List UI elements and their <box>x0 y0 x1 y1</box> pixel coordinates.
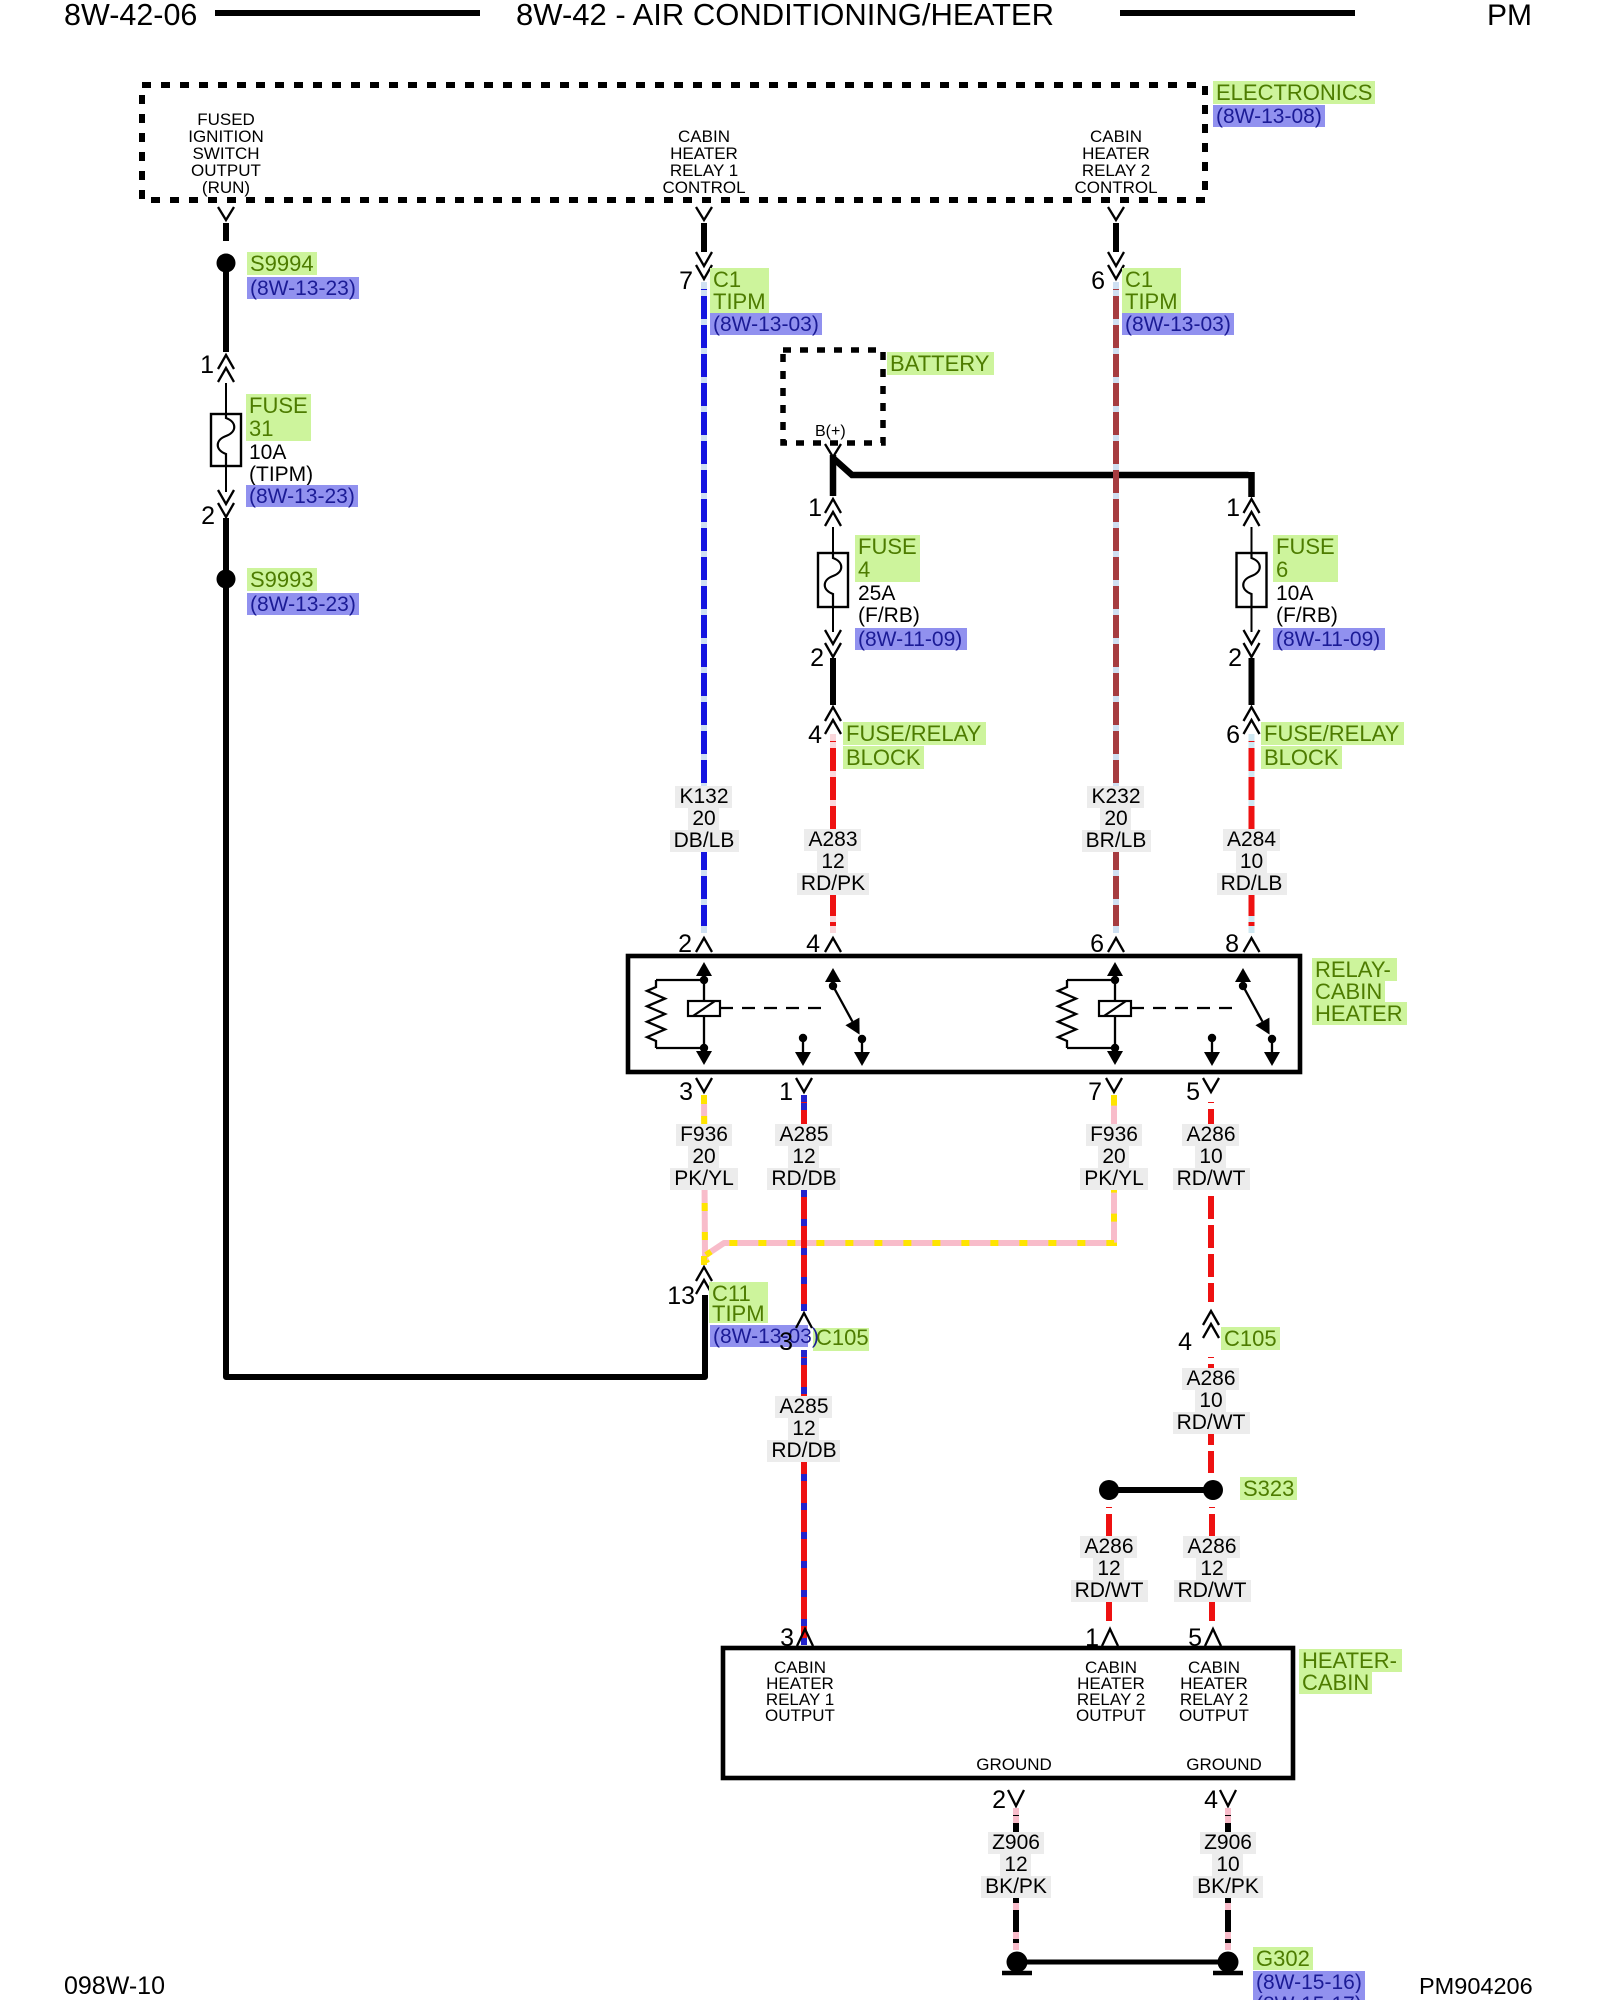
relay switch output contact <box>1208 1034 1216 1042</box>
svg-text:4: 4 <box>1178 1328 1192 1356</box>
RELAY-CABIN HEATER box <box>628 956 1300 1072</box>
svg-text:4: 4 <box>1204 1786 1218 1814</box>
svg-text:TIPM: TIPM <box>712 1301 765 1326</box>
pin 2 of fuse 6 <box>1251 607 1253 632</box>
wire exit arrow cabin heater relay 1 control <box>696 207 712 220</box>
relay switch pole arrow <box>832 982 834 985</box>
label K232 20 BR/LB <box>1087 786 1144 808</box>
label S9994 <box>247 252 317 275</box>
svg-text:CABIN: CABIN <box>1302 1670 1369 1695</box>
relay actuation dashed link <box>720 1007 825 1009</box>
wire K232 20 BR/LB <box>1113 282 1119 933</box>
svg-text:OUTPUT: OUTPUT <box>765 1706 835 1725</box>
label A286 12 RD/WT right <box>1183 1536 1240 1558</box>
svg-text:10: 10 <box>1240 850 1263 873</box>
relay coil ground arrow <box>703 1048 705 1051</box>
svg-text:7: 7 <box>679 267 693 295</box>
svg-text:2: 2 <box>201 502 215 530</box>
label (8W-13-08) <box>1213 105 1325 127</box>
header rule left <box>215 10 480 16</box>
label G302 <box>1253 1947 1313 1970</box>
svg-text:RD/PK: RD/PK <box>801 872 865 895</box>
wire F936 20 PK/YL left <box>704 1095 707 1263</box>
ground G302 symbol <box>1017 1960 1228 1965</box>
B(+) exit arrow <box>825 444 841 457</box>
connector C1 pin 7 arrows <box>696 265 712 279</box>
svg-text:12: 12 <box>792 1417 815 1440</box>
label F936 20 PK/YL left <box>676 1124 732 1146</box>
relay coil feed arrow <box>1114 976 1116 979</box>
HEATER-CABIN box <box>723 1648 1293 1778</box>
svg-text:PM904206: PM904206 <box>1419 1973 1533 1999</box>
label (8W-13-03) left <box>710 313 822 335</box>
svg-text:1: 1 <box>779 1078 793 1106</box>
svg-text:A283: A283 <box>808 828 857 851</box>
label C105 right <box>1221 1327 1280 1350</box>
svg-text:(RUN): (RUN) <box>202 178 250 197</box>
svg-text:ELECTRONICS: ELECTRONICS <box>1216 80 1372 105</box>
svg-text:DB/LB: DB/LB <box>674 829 735 852</box>
svg-text:A286: A286 <box>1186 1123 1235 1146</box>
label FUSE/RELAY BLOCK middle <box>843 722 986 745</box>
svg-text:2: 2 <box>992 1786 1006 1814</box>
svg-text:RD/DB: RD/DB <box>771 1167 836 1190</box>
svg-text:FUSE: FUSE <box>1276 534 1335 559</box>
label C1 TIPM right <box>1122 268 1181 291</box>
label A286 10 RD/WT upper <box>1182 1124 1239 1146</box>
svg-text:13: 13 <box>667 1282 695 1310</box>
label FUSE/RELAY BLOCK right <box>1261 722 1404 745</box>
svg-text:FUSE: FUSE <box>858 534 917 559</box>
svg-text:20: 20 <box>692 1145 715 1168</box>
ELECTRONICS module dotted box <box>142 85 1205 200</box>
battery feed wire to fuse 4 and fuse 6 <box>833 455 1252 497</box>
svg-text:F936: F936 <box>1090 1123 1138 1146</box>
fuse F31 <box>225 383 227 414</box>
svg-text:CONTROL: CONTROL <box>662 178 745 197</box>
svg-text:PM: PM <box>1487 0 1532 32</box>
svg-text:FUSE/RELAY: FUSE/RELAY <box>846 721 982 746</box>
svg-text:8W-42 - AIR CONDITIONING/HEATE: 8W-42 - AIR CONDITIONING/HEATER <box>516 0 1054 32</box>
wire F936 pink/yellow horizontal run <box>706 1095 1114 1255</box>
relay coil ground arrow <box>1114 1048 1116 1051</box>
yellow tracer dashes at wire ends <box>701 1095 707 1104</box>
relay switch thrown-contact arrow <box>1271 1039 1273 1050</box>
relay switch blade <box>833 986 852 1022</box>
svg-text:S9994: S9994 <box>250 251 314 276</box>
label A284 10 RD/LB <box>1223 829 1280 851</box>
label Z906 10 BK/PK <box>1200 1832 1256 1854</box>
svg-text:A286: A286 <box>1084 1535 1133 1558</box>
svg-text:12: 12 <box>1004 1853 1027 1876</box>
svg-text:6: 6 <box>1091 267 1105 295</box>
svg-text:B(+): B(+) <box>815 423 846 440</box>
label (8W-13-03) at C11 <box>710 1325 808 1347</box>
svg-text:(8W-13-03): (8W-13-03) <box>713 1325 819 1348</box>
BATTERY dotted box <box>783 350 883 443</box>
label (8W-15-16) <box>1253 1971 1365 1993</box>
svg-text:S323: S323 <box>1243 1476 1294 1501</box>
svg-text:GROUND: GROUND <box>976 1755 1052 1774</box>
svg-text:10: 10 <box>1199 1145 1222 1168</box>
wire exit arrow from ELECTRONICS (run output) <box>218 207 234 220</box>
label BATTERY <box>887 352 994 375</box>
label Z906 12 BK/PK <box>988 1832 1044 1854</box>
svg-text:BK/PK: BK/PK <box>985 1875 1047 1898</box>
svg-text:BATTERY: BATTERY <box>890 351 990 376</box>
svg-text:(8W-13-23): (8W-13-23) <box>249 485 355 508</box>
label S9993 <box>247 568 317 591</box>
svg-text:10A: 10A <box>249 441 286 464</box>
relay switch output contact <box>799 1034 807 1042</box>
label (8W-11-09) for fuse 6 <box>1273 628 1385 650</box>
svg-text:BLOCK: BLOCK <box>1264 745 1339 770</box>
svg-text:(8W-13-03): (8W-13-03) <box>713 313 819 336</box>
svg-text:G302: G302 <box>1256 1946 1310 1971</box>
svg-text:F936: F936 <box>680 1123 728 1146</box>
svg-text:5: 5 <box>1186 1078 1200 1106</box>
label C105 left <box>813 1328 869 1351</box>
svg-text:8W-42-06: 8W-42-06 <box>64 0 197 32</box>
pin 2 of fuse 31 <box>225 466 227 492</box>
label RELAY-CABIN HEATER <box>1312 958 1397 981</box>
wire A286 12 RD/WT right leg <box>1209 1500 1215 1628</box>
svg-text:K232: K232 <box>1091 785 1140 808</box>
svg-text:20: 20 <box>692 807 715 830</box>
wire A286 10 RD/WT to splice S323 <box>1208 1350 1214 1480</box>
svg-text:Z906: Z906 <box>992 1831 1040 1854</box>
svg-text:OUTPUT: OUTPUT <box>1179 1706 1249 1725</box>
wire A286 10 RD/WT from relay pin 5 <box>1208 1095 1214 1309</box>
svg-text:A285: A285 <box>779 1123 828 1146</box>
splice S323 <box>1109 1487 1213 1493</box>
wire A286 12 RD/WT left leg <box>1106 1500 1112 1628</box>
svg-text:A286: A286 <box>1186 1367 1235 1390</box>
svg-text:(8W-13-23): (8W-13-23) <box>250 277 356 300</box>
svg-text:A285: A285 <box>779 1395 828 1418</box>
svg-text:FUSE: FUSE <box>249 393 308 418</box>
pin 2 of fuse 4 <box>832 607 834 632</box>
wire K132 20 DB/LB <box>701 282 707 933</box>
wire A283 12 RD/PK <box>830 734 836 933</box>
svg-text:(8W-15-16): (8W-15-16) <box>1256 1971 1362 1994</box>
svg-text:10A: 10A <box>1276 582 1313 605</box>
connector C1 pin 6 arrows <box>1108 265 1124 279</box>
label F936 20 PK/YL right <box>1086 1124 1142 1146</box>
svg-text:12: 12 <box>1200 1557 1223 1580</box>
splice S9993 <box>217 570 236 589</box>
relay switch blade <box>1243 986 1262 1022</box>
svg-text:1: 1 <box>808 494 822 522</box>
wire fuse 4 to fuse/relay block <box>830 658 836 705</box>
fuse F6 <box>1251 527 1253 553</box>
svg-text:RD/WT: RD/WT <box>1177 1411 1246 1434</box>
label (8W-13-03) right <box>1122 313 1234 335</box>
label HEATER-CABIN <box>1299 1649 1402 1672</box>
relay coil resistor <box>656 980 704 1048</box>
svg-text:098W-10: 098W-10 <box>64 1972 165 2000</box>
label A285 12 RD/DB lower <box>775 1396 832 1418</box>
wire A284 10 RD/LB <box>1249 734 1255 933</box>
svg-text:S9993: S9993 <box>250 567 314 592</box>
label ELECTRONICS <box>1213 81 1375 104</box>
svg-text:BLOCK: BLOCK <box>846 745 921 770</box>
relay coil <box>703 980 705 1048</box>
svg-text:K132: K132 <box>679 785 728 808</box>
label FUSE 4 <box>855 535 920 559</box>
svg-text:1: 1 <box>200 351 214 379</box>
svg-text:12: 12 <box>1097 1557 1120 1580</box>
label K132 20 DB/LB <box>675 786 732 808</box>
svg-text:7: 7 <box>1088 1078 1102 1106</box>
svg-text:(F/RB): (F/RB) <box>1276 604 1338 627</box>
svg-text:(TIPM): (TIPM) <box>249 463 313 486</box>
svg-text:3: 3 <box>679 1078 693 1106</box>
label A286 10 RD/WT middle <box>1182 1368 1239 1390</box>
label FUSE 6 <box>1273 535 1338 559</box>
svg-text:CONTROL: CONTROL <box>1074 178 1157 197</box>
label (8W-15-17) clipped <box>1253 1993 1365 2000</box>
svg-text:BK/PK: BK/PK <box>1197 1875 1259 1898</box>
svg-text:25A: 25A <box>858 582 895 605</box>
wire Z906 10 BK/PK <box>1225 1808 1231 1950</box>
svg-text:RD/WT: RD/WT <box>1177 1167 1246 1190</box>
svg-text:4: 4 <box>858 557 870 582</box>
wire A285 12 RD/DB from relay pin 1 <box>801 1095 807 1311</box>
relay switch thrown-contact arrow <box>861 1039 863 1050</box>
label C1 TIPM <box>710 268 769 291</box>
svg-text:(8W-13-23): (8W-13-23) <box>250 593 356 616</box>
relay coil resistor <box>1067 980 1115 1048</box>
svg-text:4: 4 <box>808 721 822 749</box>
svg-text:12: 12 <box>792 1145 815 1168</box>
svg-text:(8W-11-09): (8W-11-09) <box>1276 628 1380 651</box>
label (8W-11-09) for fuse 4 <box>855 628 967 650</box>
svg-text:RD/WT: RD/WT <box>1075 1579 1144 1602</box>
label (8W-13-23) for fuse 31 <box>246 485 358 507</box>
svg-text:BR/LB: BR/LB <box>1086 829 1147 852</box>
svg-text:(8W-11-09): (8W-11-09) <box>858 628 962 651</box>
svg-text:C105: C105 <box>1224 1326 1277 1351</box>
svg-text:12: 12 <box>821 850 844 873</box>
connector C11 pin 13 arrows <box>696 1267 712 1281</box>
wire fuse 6 to fuse/relay block <box>1249 658 1255 705</box>
label (8W-13-23) for S9994 <box>247 277 359 299</box>
relay coil feed arrow <box>703 976 705 979</box>
label S323 <box>1240 1477 1297 1500</box>
wire A285 12 RD/DB to heater <box>801 1350 807 1645</box>
svg-text:RD/LB: RD/LB <box>1221 872 1283 895</box>
svg-text:20: 20 <box>1102 1145 1125 1168</box>
svg-text:RD/DB: RD/DB <box>771 1439 836 1462</box>
svg-text:6: 6 <box>1226 721 1240 749</box>
svg-text:6: 6 <box>1276 557 1288 582</box>
svg-text:20: 20 <box>1104 807 1127 830</box>
label A283 12 RD/PK <box>804 829 861 851</box>
svg-text:10: 10 <box>1216 1853 1239 1876</box>
svg-text:3: 3 <box>779 1328 793 1356</box>
connector C105 pin 4 arrows <box>1203 1311 1219 1325</box>
svg-text:10: 10 <box>1199 1389 1222 1412</box>
svg-text:(8W-13-08): (8W-13-08) <box>1216 105 1322 128</box>
svg-text:Z906: Z906 <box>1204 1831 1252 1854</box>
svg-text:GROUND: GROUND <box>1186 1755 1262 1774</box>
svg-text:FUSE/RELAY: FUSE/RELAY <box>1264 721 1400 746</box>
svg-text:PK/YL: PK/YL <box>674 1167 734 1190</box>
wire exit arrow cabin heater relay 2 control <box>1108 207 1124 220</box>
wire S9993 down and across to C11 pin 13 <box>226 588 705 1377</box>
svg-text:(8W-15-17): (8W-15-17) <box>1256 1993 1362 2000</box>
svg-text:TIPM: TIPM <box>713 289 766 314</box>
wire fuse 31 to S9993 <box>223 518 229 570</box>
relay coil <box>1114 980 1116 1048</box>
label A286 12 RD/WT left <box>1080 1536 1137 1558</box>
svg-text:31: 31 <box>249 416 273 441</box>
header rule right <box>1120 10 1355 16</box>
label A285 12 RD/DB upper <box>775 1124 832 1146</box>
svg-text:2: 2 <box>810 644 824 672</box>
svg-text:PK/YL: PK/YL <box>1084 1167 1144 1190</box>
label (8W-13-23) for S9993 <box>247 593 359 615</box>
svg-text:OUTPUT: OUTPUT <box>1076 1706 1146 1725</box>
svg-text:(8W-13-03): (8W-13-03) <box>1125 313 1231 336</box>
wire Z906 12 BK/PK <box>1013 1808 1019 1950</box>
svg-text:HEATER: HEATER <box>1315 1001 1403 1026</box>
svg-text:A284: A284 <box>1227 828 1276 851</box>
svg-text:C105: C105 <box>816 1325 869 1350</box>
svg-text:(F/RB): (F/RB) <box>858 604 920 627</box>
connector C105 pin 3 arrow <box>796 1313 812 1328</box>
svg-text:TIPM: TIPM <box>1125 289 1178 314</box>
pin 6 fuse/relay block <box>1244 707 1260 721</box>
svg-text:2: 2 <box>1228 644 1242 672</box>
pin 4 fuse/relay block <box>825 707 841 721</box>
svg-text:1: 1 <box>1226 494 1240 522</box>
relay actuation dashed link <box>1131 1007 1235 1009</box>
fuse F4 <box>832 527 834 553</box>
svg-text:A286: A286 <box>1187 1535 1236 1558</box>
wire S9994 to fuse 31 <box>223 271 229 352</box>
relay switch pole arrow <box>1242 982 1244 985</box>
label FUSE 31 <box>246 394 311 418</box>
svg-text:RD/WT: RD/WT <box>1178 1579 1247 1602</box>
label C11 TIPM <box>709 1282 768 1303</box>
splice S9994 <box>217 254 236 273</box>
